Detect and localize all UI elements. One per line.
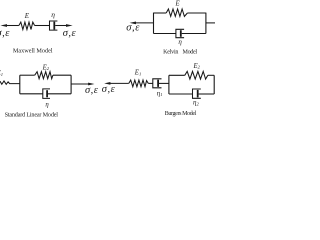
- wire: Burgers top-left: [169, 74, 185, 76]
- svg-text:η: η: [51, 10, 55, 19]
- node: Standard Linear left junction bar: [19, 75, 21, 94]
- wire: Kelvin bottom-left: [154, 33, 176, 35]
- spring E2 (Standard Linear): [35, 72, 53, 79]
- dashpot eta2 (Burgers): cylinder: [193, 89, 201, 98]
- spring E (Kelvin): [166, 9, 187, 16]
- node: Burgers right junction bar (clipped at edge): [213, 75, 215, 94]
- svg-text:σ,ε: σ,ε: [126, 23, 140, 34]
- svg-text:η: η: [178, 38, 182, 46]
- wire: Burgers top-right: [208, 74, 214, 76]
- wire: Kelvin top-left: [154, 12, 167, 14]
- wire: Kelvin top-right: [187, 12, 206, 14]
- wire: Standard Linear bottom-left: [20, 93, 43, 95]
- svg-text:σ,ε: σ,ε: [63, 28, 77, 39]
- node A: Maxwell left arrow (stress): [0, 24, 19, 27]
- svg-text:Model: Model: [183, 49, 198, 55]
- node: Kelvin left junction bar: [153, 13, 155, 34]
- svg-text:E1: E1: [134, 70, 141, 77]
- node: Standard Linear right junction bar: [70, 75, 72, 94]
- spring E1 (Burgers): [129, 80, 149, 87]
- svg-text:E2: E2: [42, 64, 50, 71]
- wire: Kelvin right lead: [206, 22, 215, 24]
- dashpot eta1 (Burgers): cylinder: [153, 79, 162, 88]
- svg-text:E1: E1: [0, 70, 3, 77]
- node B: Maxwell right arrow (stress): [66, 24, 73, 27]
- dashpot eta (Standard Linear): cylinder: [43, 89, 50, 99]
- svg-text:Maxwell Model: Maxwell Model: [13, 48, 53, 55]
- wire: Maxwell spring to dashpot: [35, 25, 50, 27]
- dashpot eta (Maxwell): piston: [53, 22, 55, 30]
- svg-text:σ,ε: σ,ε: [102, 84, 116, 95]
- wire: Burgers dashpot rod: [199, 93, 215, 95]
- wire: Burgers dashpot rod to box: [159, 82, 169, 84]
- spring E1 (Standard Linear, clipped at edge): [0, 81, 20, 84]
- dashpot eta (Standard Linear): piston: [46, 90, 48, 97]
- dashpot eta (Kelvin): piston: [180, 30, 182, 37]
- node: Burgers left junction bar: [168, 75, 170, 94]
- node: Standard Linear right arrow (stress): [71, 83, 94, 86]
- svg-text:η1: η1: [157, 89, 163, 97]
- dashpot eta1 (Burgers): piston: [157, 80, 159, 87]
- wire: Standard Linear top-left: [20, 74, 35, 76]
- node: Kelvin right junction bar: [205, 13, 207, 34]
- svg-text:Burgers Model: Burgers Model: [165, 111, 197, 117]
- svg-text:E: E: [24, 12, 30, 20]
- svg-text:σ,ε: σ,ε: [85, 85, 99, 96]
- svg-text:E2: E2: [193, 63, 201, 70]
- node: Burgers left arrow (stress): [104, 82, 129, 85]
- svg-text:η: η: [45, 101, 49, 108]
- svg-text:η2: η2: [193, 99, 199, 107]
- svg-text:E: E: [175, 1, 181, 8]
- dashpot eta (Maxwell): cylinder: [50, 21, 58, 30]
- wire: Maxwell dashpot rod: [55, 25, 66, 27]
- svg-text:Kelvin: Kelvin: [163, 49, 178, 55]
- wire: Standard Linear top-right: [53, 74, 71, 76]
- svg-text:σ,ε: σ,ε: [0, 28, 10, 39]
- wire: Burgers E1 to dashpot: [148, 82, 153, 84]
- wire: Standard Linear dashpot rod: [48, 93, 71, 95]
- spring E2 (Burgers): [185, 71, 208, 79]
- dashpot eta (Kelvin): cylinder: [176, 29, 184, 37]
- dashpot eta2 (Burgers): piston: [197, 90, 199, 98]
- node: Kelvin left arrow (stress): [130, 22, 154, 25]
- spring E (Maxwell): [19, 22, 35, 29]
- svg-text:Standard Linear Model: Standard Linear Model: [5, 111, 59, 118]
- wire: Kelvin dashpot rod: [182, 33, 206, 35]
- wire: Burgers bottom-left: [169, 93, 193, 95]
